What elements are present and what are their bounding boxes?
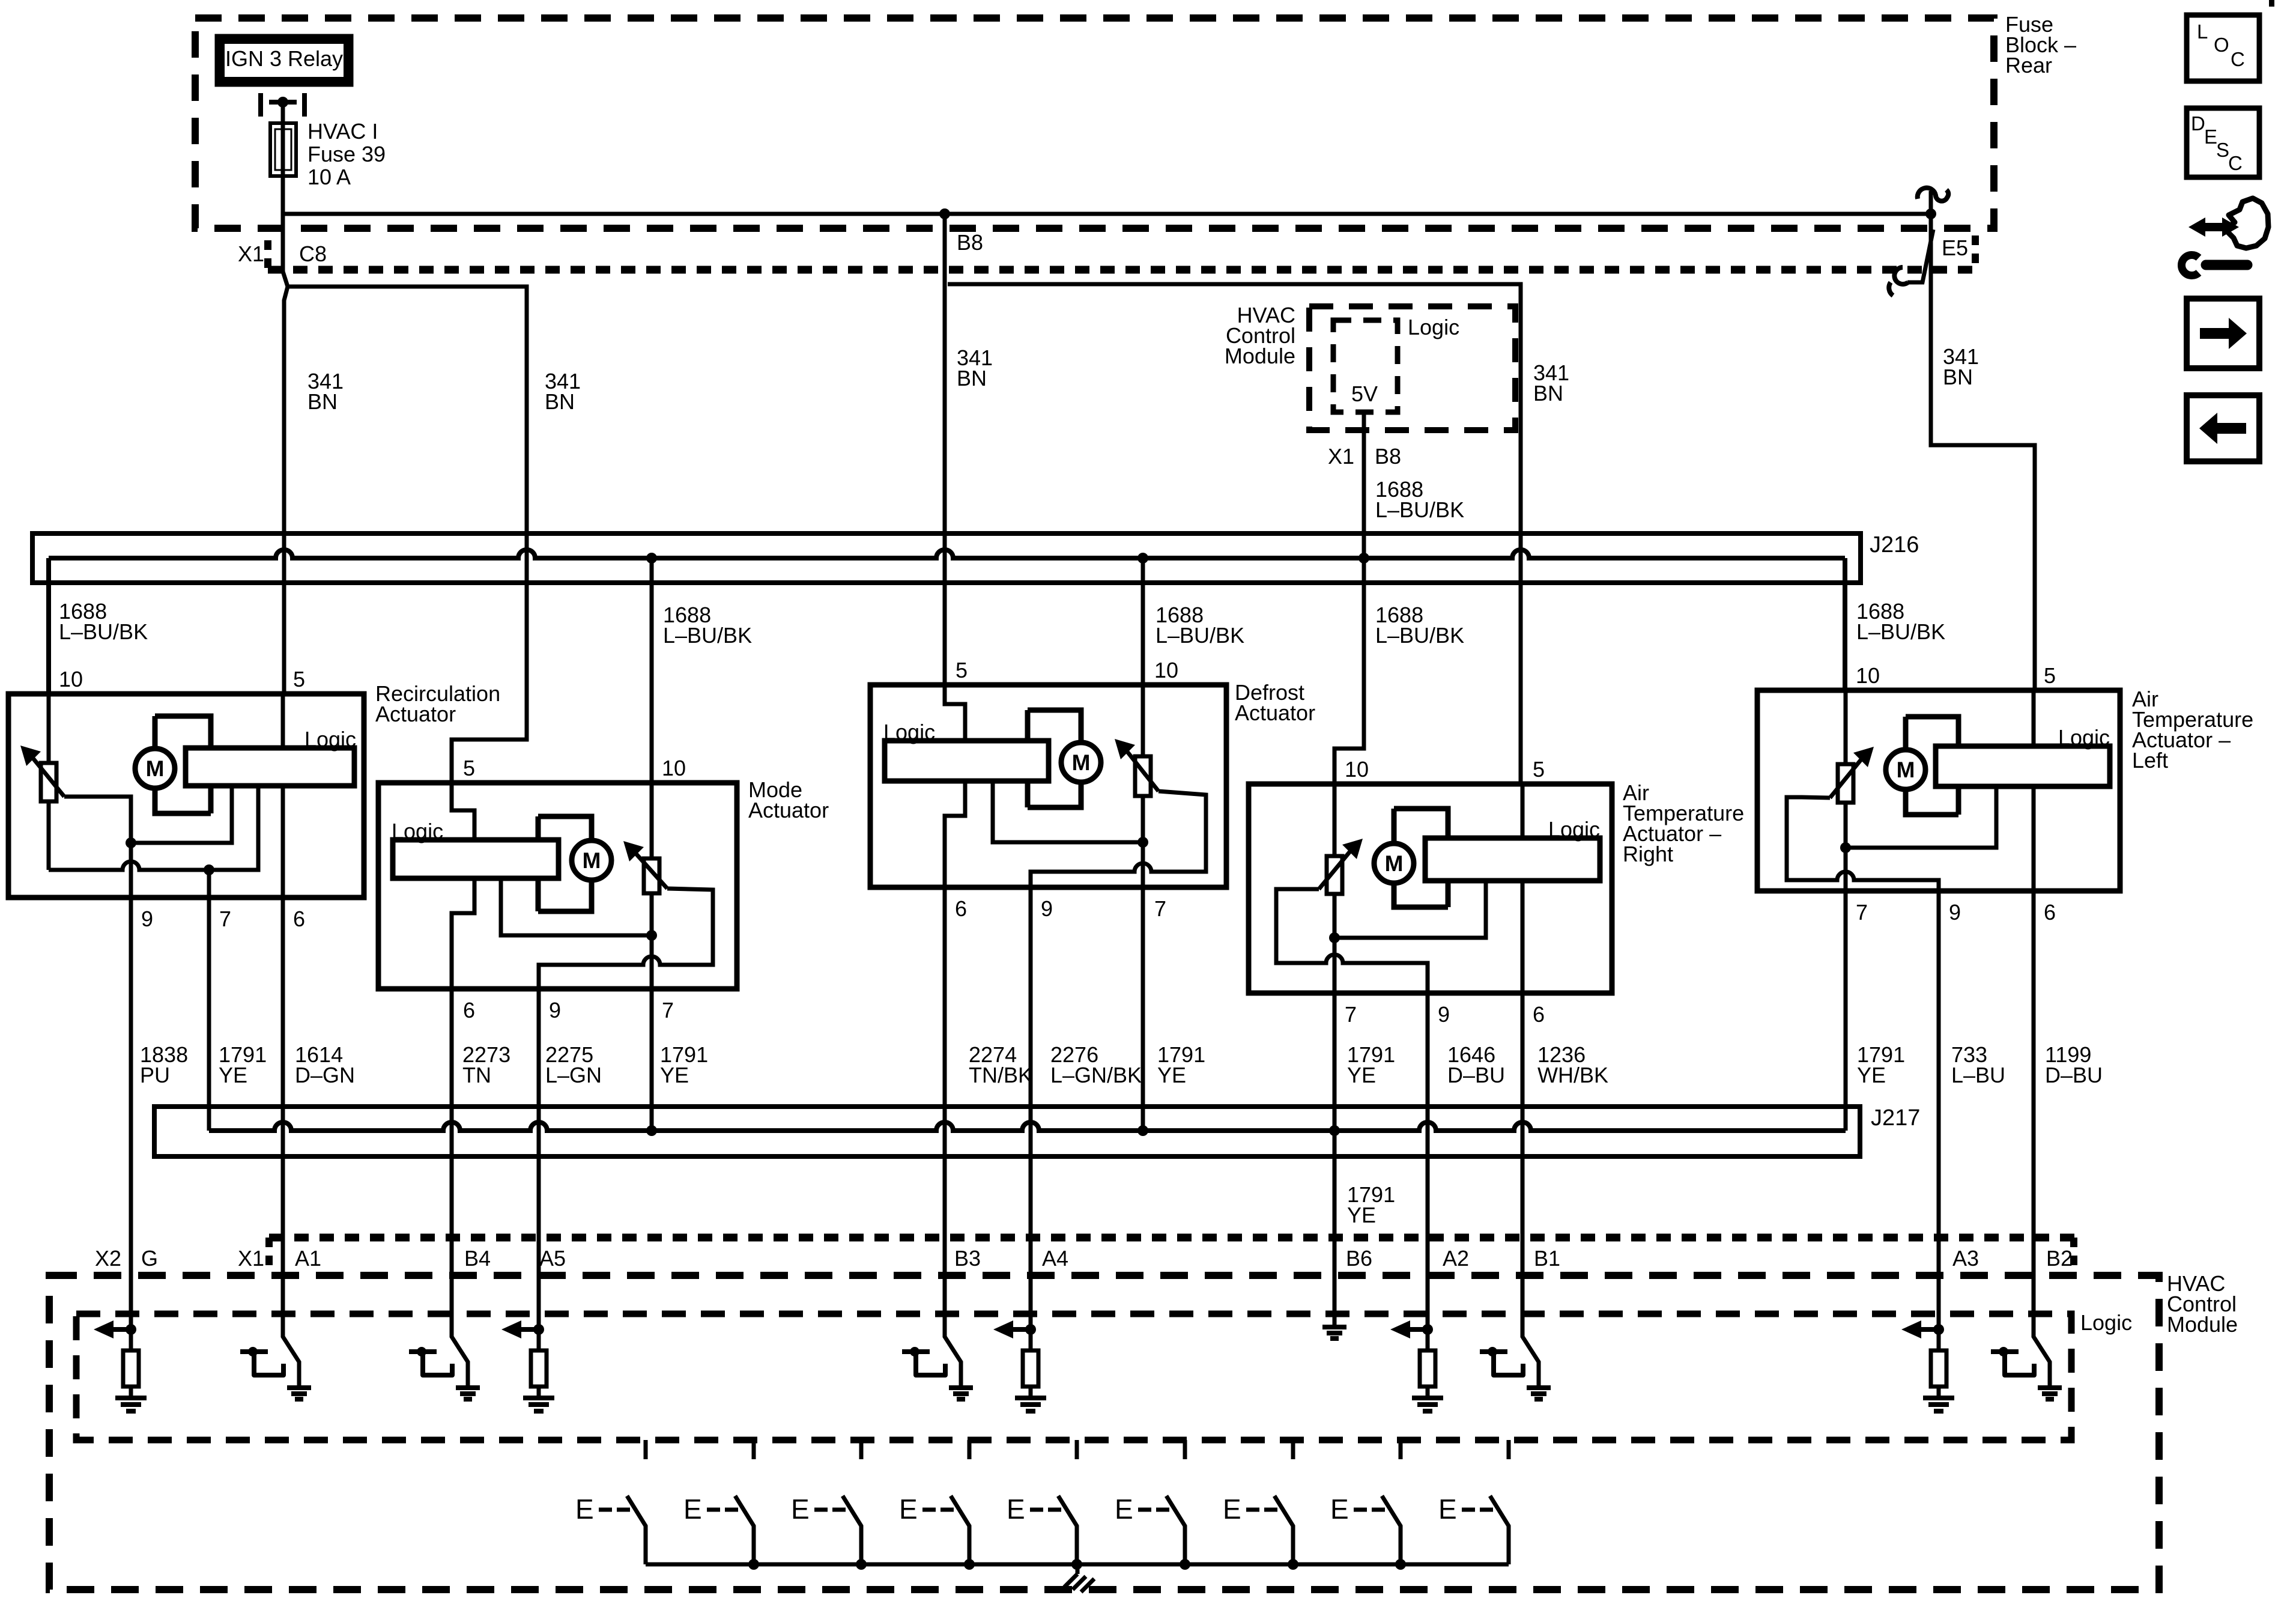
wire 1236 WH/BK (1522, 993, 1539, 1388)
actuator AirTempRight box (1249, 784, 1612, 993)
svg-text:6: 6 (463, 998, 475, 1022)
switch S6 (1183, 1440, 1187, 1459)
node A2 input (1422, 1324, 1433, 1335)
svg-text:X1: X1 (238, 242, 264, 266)
svg-text:YE: YE (1857, 1063, 1886, 1087)
ground (B1 driver) (1527, 1388, 1551, 1399)
wiper path to pin 9 (1276, 889, 1428, 993)
icon arrow-left box (2187, 395, 2259, 461)
connector E5 dotted separator (1972, 235, 1979, 270)
switch S4 (968, 1440, 972, 1459)
arrow (signal to logic) (113, 1327, 131, 1332)
wire branch to Mode actuator feed (286, 287, 527, 783)
svg-text:G: G (141, 1246, 158, 1271)
wire (129, 1387, 133, 1398)
wire (537, 1329, 541, 1350)
node G input (126, 1324, 136, 1335)
svg-text:L–BU/BK: L–BU/BK (1156, 623, 1244, 648)
svg-text:L–BU/BK: L–BU/BK (1375, 623, 1464, 648)
svg-text:Logic: Logic (1408, 315, 1459, 339)
wire pin 10 to position sensor to pin 7 (650, 783, 654, 935)
motor loop Mode (538, 816, 592, 911)
svg-text:B8: B8 (957, 230, 983, 255)
svg-text:A1: A1 (295, 1246, 321, 1271)
ground (1015, 1398, 1046, 1411)
svg-text:6: 6 (955, 896, 967, 921)
wire branch to ATR feed 341 BN (948, 284, 1521, 784)
svg-text:E: E (683, 1493, 702, 1525)
svg-text:Logic: Logic (2080, 1310, 2132, 1335)
svg-text:6: 6 (2044, 900, 2056, 925)
svg-text:L–BU/BK: L–BU/BK (1375, 497, 1464, 522)
svg-text:X1: X1 (1328, 444, 1354, 469)
wire 1199 D-BU (2034, 891, 2050, 1388)
svg-text:D–GN: D–GN (295, 1063, 355, 1087)
svg-text:10: 10 (59, 667, 83, 691)
resistor pull-up A3 (1931, 1350, 1946, 1387)
svg-text:TN/BK: TN/BK (969, 1063, 1032, 1087)
svg-text:X1: X1 (238, 1246, 264, 1271)
svg-text:10: 10 (1345, 757, 1369, 782)
svg-text:5: 5 (1533, 757, 1545, 782)
ground (B3 driver) (949, 1388, 973, 1399)
wire J216 to Recirculation pin 10 (46, 558, 51, 694)
node A4 input (1025, 1324, 1036, 1335)
svg-text:A3: A3 (1952, 1246, 1979, 1271)
svg-text:BN: BN (1533, 381, 1563, 406)
ground (B2 driver) (2038, 1388, 2062, 1399)
svg-text:10 A: 10 A (307, 165, 351, 189)
svg-text:B8: B8 (1375, 444, 1401, 469)
svg-text:L–BU/BK: L–BU/BK (1856, 619, 1945, 644)
wire (1029, 1329, 1033, 1350)
icon LOC box (2187, 15, 2259, 81)
svg-text:9: 9 (549, 998, 561, 1022)
connector clip A1 (248, 1347, 258, 1356)
svg-text:E: E (575, 1493, 594, 1525)
connector clip E5 lower half (1907, 229, 1933, 282)
switch S5 (1075, 1440, 1079, 1459)
node relay output (277, 97, 288, 108)
svg-text:7: 7 (662, 998, 674, 1022)
svg-text:Fuse 39: Fuse 39 (307, 142, 386, 166)
svg-text:X2: X2 (95, 1246, 121, 1271)
svg-text:M: M (583, 848, 601, 873)
svg-text:7: 7 (1154, 896, 1166, 921)
wire (1426, 1329, 1430, 1350)
actuator Defrost box (870, 685, 1226, 887)
fuse HVAC I Fuse 39 10A (270, 123, 296, 176)
motor M AirTempLeft (1886, 750, 1925, 789)
wire 341 BN C8 column (283, 214, 288, 694)
svg-text:10: 10 (1856, 663, 1880, 688)
motor loop Recirculation (155, 716, 211, 813)
wire 1791 YE (ATR pin7) (1333, 993, 1337, 1131)
svg-text:5: 5 (956, 658, 968, 682)
actuator AirTempRight: internal wires (1521, 784, 1525, 993)
svg-text:C8: C8 (299, 242, 327, 266)
svg-text:E: E (791, 1493, 810, 1525)
svg-text:5: 5 (2044, 663, 2056, 688)
actuator Mode box (378, 783, 737, 989)
motor M Recirculation (135, 749, 175, 788)
icon hand with double arrow (2188, 217, 2239, 237)
label J216 (1870, 532, 1919, 557)
actuator AirTempLeft box (1757, 690, 2120, 891)
svg-text:S: S (2216, 139, 2229, 161)
splice pack J217 housing (154, 1107, 1860, 1156)
svg-text:Logic: Logic (883, 720, 935, 744)
motor M AirTempRight (1374, 843, 1414, 883)
wire 1688 L-BU/BK 5V reference (1334, 412, 1364, 784)
wire 2275 L-GN (537, 989, 541, 1350)
svg-text:YE: YE (1347, 1203, 1376, 1227)
wire switch common rail (646, 1563, 1509, 1567)
motor loop AirTempRight (1394, 809, 1448, 907)
connector clip B4 (417, 1347, 426, 1356)
wire (1426, 1387, 1430, 1398)
label Fuse Block - Rear (2005, 12, 2076, 77)
svg-text:IGN 3 Relay: IGN 3 Relay (225, 46, 343, 71)
resistor pull-up A5 (531, 1350, 547, 1387)
resistor pull-up A2 (1420, 1350, 1435, 1387)
logic block Mode (393, 840, 559, 878)
wire 1838 PU (129, 898, 133, 1329)
svg-text:BN: BN (1943, 365, 1973, 389)
ground (523, 1398, 554, 1411)
page mark (2269, 0, 2274, 7)
connector separator left (265, 1238, 273, 1268)
wiper path to pin 9 (539, 889, 713, 989)
svg-text:YE: YE (1347, 1063, 1376, 1087)
node (748, 1559, 759, 1570)
wiper path to pin 9 (1787, 797, 1939, 891)
fuse block - rear dashed enclosure (195, 18, 1994, 228)
svg-text:YE: YE (660, 1063, 689, 1087)
ground (B4 driver) (456, 1388, 480, 1399)
svg-text:9: 9 (141, 907, 153, 931)
wire 1791 YE (Mode pin7) (650, 989, 654, 1131)
wire J216 internal 1688 bus (49, 550, 1845, 558)
wire 341 BN B8 column (943, 214, 947, 685)
icon DESC box (2187, 108, 2259, 177)
node B8 tap (939, 208, 950, 219)
resistor pull-up G (123, 1350, 139, 1387)
svg-text:E: E (1115, 1493, 1133, 1525)
logic block Defrost (885, 741, 1049, 781)
svg-text:Module: Module (2167, 1312, 2238, 1337)
relay output terminal bracket (261, 93, 304, 117)
wire (129, 1329, 133, 1350)
node sensor junction (1840, 842, 1851, 853)
node wiper junction (126, 837, 136, 848)
svg-text:M: M (1897, 758, 1915, 782)
svg-text:Right: Right (1623, 842, 1673, 866)
motor M Mode (572, 840, 611, 880)
svg-text:L–GN/BK: L–GN/BK (1050, 1063, 1142, 1087)
node sensor junction (646, 930, 657, 941)
ground (A1 driver) (287, 1388, 311, 1399)
ground (1923, 1398, 1954, 1411)
node (1180, 1559, 1190, 1570)
wire (1937, 1387, 1941, 1398)
connector separator right (2070, 1238, 2077, 1268)
node (1288, 1559, 1298, 1570)
logic block AirTempLeft (1936, 746, 2110, 786)
svg-text:WH/BK: WH/BK (1537, 1063, 1608, 1087)
node sensor junction (1137, 837, 1148, 848)
potentiometer AirTempRight (1327, 856, 1342, 894)
svg-text:J217: J217 (1871, 1105, 1920, 1131)
wire J216 to ATL pin 10 (1843, 558, 1847, 690)
svg-text:Logic: Logic (1548, 817, 1600, 842)
svg-text:YE: YE (1157, 1063, 1186, 1087)
connector clip B2 (1999, 1347, 2008, 1356)
actuator Recirculation: internal wires (281, 694, 285, 898)
svg-text:D–BU: D–BU (2045, 1063, 2103, 1087)
svg-text:D–BU: D–BU (1447, 1063, 1505, 1087)
svg-text:Logic: Logic (2058, 725, 2110, 750)
node E5 tap (1925, 208, 1936, 219)
svg-text:L: L (2197, 20, 2208, 43)
svg-text:9: 9 (1438, 1002, 1450, 1027)
potentiometer Mode (644, 858, 659, 893)
svg-text:E: E (899, 1493, 918, 1525)
svg-text:A2: A2 (1443, 1246, 1469, 1271)
svg-text:Actuator: Actuator (375, 702, 456, 726)
switch S9 (1507, 1440, 1511, 1459)
ground (115, 1398, 147, 1411)
svg-text:L–BU/BK: L–BU/BK (663, 623, 752, 648)
HVAC control module (top) dashed box (1309, 306, 1515, 430)
wire 1791 YE (Defrost pin7) (1141, 887, 1145, 1131)
svg-text:E: E (1007, 1493, 1025, 1525)
node (1395, 1559, 1406, 1570)
splice pack J216 housing (32, 533, 1861, 583)
svg-text:5: 5 (463, 756, 475, 780)
label J217 (1871, 1105, 1920, 1131)
connector X1 dotted line (module) (269, 1234, 2075, 1242)
potentiometer Defrost (1135, 756, 1151, 796)
wire 1646 D-BU (1426, 993, 1430, 1350)
svg-text:E: E (1330, 1493, 1349, 1525)
node (964, 1559, 975, 1570)
HVAC control module (bottom) dashed box (49, 1275, 2159, 1590)
logic block AirTempRight (1425, 838, 1600, 881)
arrow (signal to logic) (521, 1327, 539, 1332)
motor M Defrost (1061, 743, 1101, 782)
wire J216 to Mode pin 10 (650, 558, 654, 783)
wire sensor junction to logic (1334, 881, 1486, 938)
wire 341 BN feed bus y=356 (283, 212, 1931, 216)
svg-text:5: 5 (293, 667, 305, 691)
wire 1791 YE (ATL pin7) (1844, 891, 1848, 1131)
svg-text:YE: YE (219, 1063, 247, 1087)
svg-text:6: 6 (293, 907, 305, 931)
wire 2273 TN (452, 989, 468, 1388)
svg-text:O: O (2214, 34, 2229, 56)
svg-text:B4: B4 (464, 1246, 491, 1271)
svg-text:HVAC I: HVAC I (307, 119, 378, 144)
svg-text:C: C (2231, 48, 2245, 70)
svg-text:BN: BN (307, 389, 338, 414)
actuator Recirculation box (8, 694, 364, 898)
wire pin 10 to position sensor to pin 7 (1141, 685, 1145, 842)
svg-text:B3: B3 (954, 1246, 981, 1271)
wire pin 7 drop (207, 870, 211, 898)
icon arrow-right box (2187, 299, 2259, 368)
motor loop Defrost (1028, 710, 1081, 807)
arrow (signal to logic) (1410, 1327, 1428, 1332)
svg-text:E: E (1223, 1493, 1241, 1525)
resistor pull-up A4 (1023, 1350, 1038, 1387)
node sensor junction (1329, 932, 1340, 943)
connector X1 dotted separator (264, 240, 271, 270)
svg-text:C: C (2228, 152, 2243, 174)
svg-text:PU: PU (140, 1063, 170, 1087)
svg-text:Left: Left (2132, 748, 2168, 773)
ground (B6 reference) (1322, 1327, 1346, 1338)
wire J217 internal 1791 YE bus (209, 1122, 1846, 1131)
svg-text:M: M (146, 756, 165, 781)
switch S3 (859, 1440, 864, 1459)
svg-text:Actuator: Actuator (1235, 700, 1315, 725)
wire pot rail to pin 7 with hop (49, 786, 258, 870)
node (856, 1559, 867, 1570)
chassis ground (switch rail) (1064, 1564, 1094, 1592)
svg-text:A5: A5 (539, 1246, 566, 1271)
switch S1 (644, 1440, 648, 1459)
svg-text:L–GN: L–GN (545, 1063, 602, 1087)
potentiometer Recirculation (41, 763, 56, 801)
icon wrench (2206, 260, 2247, 270)
wire 1791 YE to B6 (1333, 1131, 1337, 1327)
logic block Recirculation (186, 748, 354, 786)
node A5 input (533, 1324, 544, 1335)
svg-text:10: 10 (1154, 658, 1178, 682)
connector clip B3 (910, 1347, 919, 1356)
wire 2274 TN/BK (945, 887, 961, 1388)
wire 2276 L-GN/BK (1029, 887, 1033, 1350)
svg-text:7: 7 (1345, 1002, 1357, 1027)
svg-text:B1: B1 (1534, 1246, 1560, 1271)
actuator Defrost: internal wires (945, 685, 965, 887)
wire 1614 D-GN (283, 898, 299, 1388)
connector clip at fuse block exit E5 (1929, 191, 1933, 214)
svg-text:BN: BN (957, 366, 987, 390)
svg-text:E: E (2204, 126, 2217, 148)
node pot junction (204, 864, 214, 875)
switch S8 (1399, 1440, 1403, 1459)
arrow (signal to logic) (1013, 1327, 1031, 1332)
svg-text:Module: Module (1225, 344, 1295, 368)
svg-text:E5: E5 (1942, 235, 1968, 260)
wiper path to logic and pin 9 (64, 786, 232, 843)
svg-text:9: 9 (1041, 896, 1053, 921)
svg-text:L–BU: L–BU (1951, 1063, 2005, 1087)
wire 341 BN E5 column (1931, 214, 2035, 690)
wire (1029, 1387, 1033, 1398)
wire pin 10 to position sensor to pin 7 (1844, 690, 1848, 848)
logic block (top module) dashed box (1333, 320, 1398, 412)
svg-text:Logic: Logic (304, 727, 356, 752)
node (1071, 1559, 1082, 1570)
motor loop AirTempLeft (1906, 717, 1958, 815)
node A3 input (1933, 1324, 1944, 1335)
svg-text:7: 7 (1856, 900, 1868, 925)
wire (537, 1387, 541, 1398)
svg-text:B6: B6 (1346, 1246, 1372, 1271)
wire pin 10 to position sensor to pin 7 (1333, 784, 1337, 938)
svg-text:Logic: Logic (392, 819, 443, 843)
svg-text:D: D (2191, 112, 2205, 135)
svg-text:A4: A4 (1042, 1246, 1068, 1271)
svg-text:7: 7 (219, 907, 231, 931)
logic block (bottom module) dashed box (76, 1314, 2071, 1440)
svg-text:6: 6 (1533, 1002, 1545, 1027)
wire 733 L-BU (1937, 891, 1941, 1350)
connector clip B1 (1488, 1347, 1497, 1356)
svg-text:L–BU/BK: L–BU/BK (59, 619, 148, 644)
switch S7 (1291, 1440, 1295, 1459)
svg-text:5V: 5V (1351, 381, 1378, 406)
svg-text:J216: J216 (1870, 532, 1919, 557)
svg-text:BN: BN (545, 389, 575, 414)
svg-text:9: 9 (1949, 900, 1961, 925)
svg-text:M: M (1385, 851, 1404, 876)
relay IGN 3 (contact box) (219, 38, 350, 83)
ground (1412, 1398, 1443, 1411)
connector dotted line X1 row (268, 266, 1975, 274)
actuator AirTempLeft: internal wires (2032, 690, 2036, 891)
wire 1791 YE (Recirc pin7) (207, 898, 211, 1131)
potentiometer AirTempLeft (1838, 764, 1853, 803)
svg-text:M: M (1072, 750, 1091, 775)
svg-text:Rear: Rear (2005, 53, 2052, 77)
wiper path to pin 9 (1031, 791, 1206, 887)
svg-text:B2: B2 (2046, 1246, 2073, 1271)
wire (1937, 1329, 1941, 1350)
switch S2 (752, 1440, 756, 1459)
wire pin10 pot to lower rail (47, 694, 51, 870)
wire sensor junction to logic (1846, 786, 1996, 848)
svg-text:TN: TN (462, 1063, 491, 1087)
actuator Mode: internal wires (452, 783, 474, 989)
wire relay to fuse to feed bus (281, 102, 285, 214)
wire J216 to Defrost pin 10 (1141, 558, 1145, 685)
svg-text:Actuator: Actuator (748, 798, 829, 822)
svg-text:10: 10 (662, 756, 686, 780)
svg-text:E: E (1438, 1493, 1457, 1525)
arrow (signal to logic) (1921, 1327, 1939, 1332)
